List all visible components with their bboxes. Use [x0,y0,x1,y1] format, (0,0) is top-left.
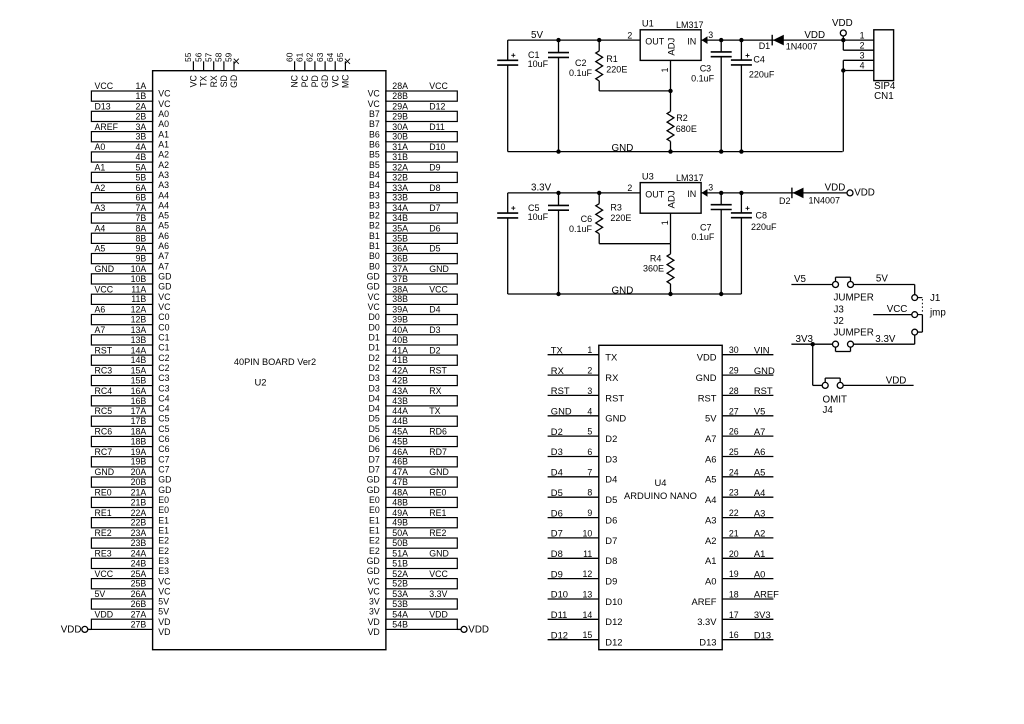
U2 left pin 9A A5 [95,244,170,261]
svg-text:1A: 1A [136,81,147,91]
svg-text:RE0: RE0 [429,488,446,498]
svg-text:2: 2 [627,30,632,40]
wire R1 bottom to ADJ [599,90,670,92]
svg-text:GD: GD [158,282,171,292]
svg-text:D13: D13 [95,102,111,112]
U4 pin 23 A4 [705,487,773,505]
svg-text:D5: D5 [369,424,380,434]
svg-text:VD: VD [368,617,380,627]
svg-text:0.1uF: 0.1uF [691,73,715,83]
CN1 pin 4 wire to GND [841,61,874,152]
svg-text:40A: 40A [392,325,408,335]
wire 3V3 net [791,343,832,345]
svg-text:VC: VC [368,89,381,99]
U2 left pin 21A RE0 [95,488,170,506]
svg-text:38B: 38B [392,294,408,304]
svg-text:C5: C5 [158,424,169,434]
svg-text:58: 58 [214,52,224,62]
svg-text:RD6: RD6 [429,427,447,437]
svg-text:D2: D2 [551,426,563,437]
svg-text:31B: 31B [392,152,408,162]
U4 pin 18 AREF [691,589,779,607]
svg-text:49B: 49B [392,518,408,528]
svg-text:41B: 41B [392,355,408,365]
svg-text:D6: D6 [429,223,440,233]
svg-text:14A: 14A [131,345,147,355]
svg-text:AREF: AREF [691,596,716,607]
svg-text:3: 3 [860,51,865,61]
svg-text:3.3V: 3.3V [697,616,717,627]
U2 right pin 40A D3 [369,325,441,343]
U4 pin 8 D5 [548,487,618,505]
U4 pin 7 D4 [548,467,618,485]
svg-text:AREF: AREF [95,122,119,132]
U2 right pin 53B box [369,599,457,617]
U2 left pin 24A RE3 [95,548,170,566]
svg-text:5V: 5V [95,589,106,599]
svg-text:D8: D8 [605,555,617,566]
svg-text:3: 3 [708,30,713,40]
svg-text:D7: D7 [605,535,617,546]
junction 3V3 node [811,342,815,346]
svg-text:15: 15 [583,630,593,640]
U4 pin 30 VIN [697,344,774,362]
svg-text:D13: D13 [699,637,716,648]
svg-text:A2: A2 [158,160,169,170]
svg-text:16A: 16A [131,386,147,396]
svg-text:C4: C4 [158,393,169,403]
U2 left pin 18A RC6 [95,427,170,445]
U2 left pin 11B box [91,294,171,312]
U4 pin 20 A1 [705,548,773,566]
svg-text:D12: D12 [605,637,622,648]
svg-text:GD: GD [367,282,380,292]
svg-text:D6: D6 [369,444,380,454]
svg-text:21A: 21A [131,488,147,498]
svg-text:A0: A0 [158,119,169,129]
svg-text:A4: A4 [158,190,169,200]
svg-text:17A: 17A [131,406,147,416]
svg-text:3A: 3A [136,122,147,132]
svg-text:OUT: OUT [645,189,665,199]
svg-text:E2: E2 [158,546,169,556]
svg-text:D4: D4 [369,404,380,414]
svg-text:C6: C6 [581,214,593,224]
svg-text:30A: 30A [392,122,408,132]
U2 left pin 23B box [91,538,169,556]
svg-text:D10: D10 [551,589,568,600]
svg-text:D2: D2 [429,345,440,355]
U2 right pin 41A D2 [369,345,441,363]
svg-text:C6: C6 [158,444,169,454]
svg-text:14B: 14B [131,355,147,365]
wire 3.3V rail [508,192,641,194]
U2 top pin 57 RX [203,52,218,87]
svg-text:17B: 17B [131,416,147,426]
svg-text:46A: 46A [392,447,408,457]
svg-text:D9: D9 [605,576,617,587]
U2 left pin 3B box [91,132,169,150]
U2 left pin 15A RC3 [95,366,170,384]
U4 pin 11 D8 [548,548,618,566]
svg-text:C0: C0 [158,322,169,332]
svg-text:RE2: RE2 [429,528,446,538]
svg-text:10: 10 [583,528,593,538]
svg-text:VC: VC [158,576,171,586]
svg-text:D1: D1 [369,343,380,353]
U4 pin 14 D11 [548,609,623,627]
svg-text:VCC: VCC [95,569,114,579]
svg-text:5V: 5V [705,413,717,424]
U2 top pin 60 NC [284,52,299,87]
U2 left pin 25A VCC [95,569,172,587]
svg-text:D12: D12 [551,629,568,640]
svg-text:19B: 19B [131,457,147,467]
svg-text:42A: 42A [392,366,408,376]
svg-text:60: 60 [284,52,294,62]
U2 right pin 32B box [369,172,457,190]
svg-text:ADJ: ADJ [667,37,678,55]
U2 right pin 36A D5 [369,244,441,261]
svg-text:37A: 37A [392,264,408,274]
svg-text:GD: GD [367,566,380,576]
svg-text:AREF: AREF [754,589,779,600]
svg-text:37B: 37B [392,274,408,284]
U2 left pin 15B box [91,375,169,393]
svg-text:A4: A4 [158,200,169,210]
connector CN1 SIP4 body [874,30,896,102]
svg-text:33A: 33A [392,183,408,193]
U2 left pin 26B box [91,599,169,617]
svg-text:GD: GD [367,556,380,566]
U4 pin 4 GND [548,405,627,423]
U2 right pin 54A VDD [368,609,448,627]
svg-text:CN1: CN1 [874,91,894,102]
U2 top pin 61 PC [295,52,310,87]
U2 top pin 63 GD [315,52,330,88]
svg-text:B2: B2 [369,221,380,231]
op-amp regulator U3 LM317 body [640,171,703,213]
svg-text:RC7: RC7 [95,447,113,457]
svg-text:VDD: VDD [95,609,114,619]
svg-text:29B: 29B [392,111,408,121]
svg-text:J4: J4 [823,405,834,416]
svg-text:U2: U2 [255,376,267,387]
svg-text:jmp: jmp [929,307,946,318]
svg-text:A4: A4 [754,487,765,498]
svg-text:VDD: VDD [832,18,853,29]
svg-text:D11: D11 [429,122,445,132]
svg-text:U3: U3 [642,171,654,181]
resistor R1 220E [596,38,628,91]
svg-text:47A: 47A [392,467,408,477]
svg-text:D7: D7 [429,203,440,213]
svg-text:D11: D11 [551,609,568,620]
U2 left pin 25B box [91,579,171,597]
U2 right pin 48B box [369,497,457,515]
svg-text:D8: D8 [551,548,563,559]
svg-text:64: 64 [325,52,335,62]
svg-text:GD: GD [229,75,239,88]
U2 right pin 52A VCC [368,569,449,587]
svg-text:26B: 26B [131,599,147,609]
U2 right pin 40B box [369,335,458,353]
svg-text:GND: GND [612,143,634,154]
svg-text:49A: 49A [392,508,408,518]
svg-text:A6: A6 [158,241,169,251]
svg-text:A4: A4 [705,494,716,505]
svg-text:28B: 28B [392,91,408,101]
svg-text:A2: A2 [95,183,106,193]
svg-text:25: 25 [729,447,739,457]
svg-text:GND: GND [754,365,775,376]
svg-text:53B: 53B [392,599,408,609]
svg-text:A3: A3 [754,507,765,518]
resistor R3 220E [596,191,632,244]
U2 left pin 13A A7 [95,325,170,343]
svg-text:VC: VC [330,75,340,88]
svg-text:3V: 3V [369,607,380,617]
svg-text:12B: 12B [131,315,147,325]
svg-text:7B: 7B [136,213,147,223]
svg-text:D10: D10 [429,142,445,152]
svg-text:10B: 10B [131,274,147,284]
svg-text:3.3V: 3.3V [531,183,552,194]
svg-text:R4: R4 [650,253,662,263]
U2 right pin 47B box [367,477,458,495]
svg-text:54B: 54B [392,619,408,629]
svg-text:10A: 10A [131,264,147,274]
svg-text:21: 21 [729,528,739,538]
svg-text:B7: B7 [369,109,380,119]
U2 right pin 46B box [369,457,458,475]
U2 right pin 38A VCC [368,284,449,302]
svg-text:D4: D4 [551,467,563,478]
svg-text:17: 17 [729,610,739,620]
svg-text:A2: A2 [754,528,765,539]
svg-text:20: 20 [729,549,739,559]
no-connect cross at pin 59 [234,59,239,64]
svg-text:56: 56 [193,52,203,62]
svg-text:E3: E3 [158,556,169,566]
U4 pin 21 A2 [705,528,773,546]
svg-text:A5: A5 [754,467,765,478]
U4 pin 13 D10 [548,589,623,607]
svg-text:50A: 50A [392,528,408,538]
U2 left pin 17B box [91,416,169,434]
svg-text:RC6: RC6 [95,427,113,437]
svg-text:14: 14 [583,610,593,620]
svg-text:RX: RX [551,365,565,376]
IC U4 ARDUINO NANO body [599,345,722,649]
svg-text:D9: D9 [429,162,440,172]
svg-text:57: 57 [203,52,213,62]
diode D2 1N4007 [779,188,840,206]
U4 pin 29 GND [696,365,775,383]
jumper header J1 [912,293,947,335]
U2 left pin 2A D13 [95,102,170,120]
svg-text:E1: E1 [369,525,380,535]
svg-text:24B: 24B [131,558,147,568]
svg-text:B1: B1 [369,241,380,251]
svg-text:11B: 11B [131,294,146,304]
U2 right pin 49B box [369,518,457,536]
svg-text:GD: GD [158,485,171,495]
svg-text:19: 19 [729,569,739,579]
svg-text:3: 3 [587,386,592,396]
svg-text:16: 16 [729,630,739,640]
junction ADJ node [668,89,672,93]
svg-text:54A: 54A [392,609,408,619]
svg-text:26A: 26A [131,589,147,599]
svg-text:RD7: RD7 [429,447,447,457]
svg-text:RC4: RC4 [95,386,113,396]
U2 left pin 12A A6 [95,305,170,323]
U2 right pin 42B box [369,375,458,393]
svg-text:GND: GND [429,264,449,274]
svg-text:C3: C3 [700,64,712,74]
svg-text:40B: 40B [392,335,408,345]
svg-text:5V: 5V [158,607,169,617]
svg-text:GND: GND [605,413,626,424]
svg-text:19A: 19A [131,447,147,457]
svg-text:A7: A7 [158,251,169,261]
svg-text:ADJ: ADJ [667,190,678,208]
svg-text:4B: 4B [136,152,147,162]
svg-text:62: 62 [305,52,315,62]
U2 left pin 27B box [91,619,170,637]
svg-text:44A: 44A [392,406,408,416]
svg-text:9B: 9B [136,254,147,264]
U4 pin 15 D12 [548,629,623,647]
svg-text:C2: C2 [158,363,169,373]
U2 left pin 6B box [91,193,169,211]
svg-text:RST: RST [605,392,624,403]
svg-text:36A: 36A [392,244,408,254]
svg-text:0.1uF: 0.1uF [569,224,593,234]
svg-text:D10: D10 [605,596,622,607]
svg-text:65: 65 [335,52,345,62]
wire 5V rail [508,39,641,41]
svg-text:D5: D5 [369,414,380,424]
CN1 pin 1 wire [843,30,874,40]
U2 left pin 22A RE1 [95,508,170,526]
svg-text:D4: D4 [369,393,380,403]
U2 right pin 39A D4 [369,305,441,323]
svg-text:1N4007: 1N4007 [786,41,818,51]
svg-text:C7: C7 [158,454,169,464]
U2 right pin 38B box [368,294,458,312]
svg-text:220uF: 220uF [751,222,777,232]
svg-text:GND: GND [551,405,572,416]
svg-text:VC: VC [368,576,381,586]
U2 left pin 2B box [91,111,169,129]
svg-text:VDD: VDD [886,375,907,386]
U2 left pin 26A 5V [95,589,170,607]
svg-text:24A: 24A [131,548,147,558]
svg-text:A3: A3 [158,180,169,190]
svg-text:3B: 3B [136,132,147,142]
svg-text:48A: 48A [392,488,408,498]
svg-text:8B: 8B [136,233,147,243]
svg-text:GD: GD [367,485,380,495]
svg-text:20B: 20B [131,477,147,487]
svg-text:13: 13 [583,589,593,599]
wire J1 pin3 to 3.3V net [854,335,915,344]
U2 right pin 52B box [368,579,458,597]
svg-text:U4: U4 [655,477,667,488]
svg-text:D7: D7 [551,528,563,539]
svg-text:RST: RST [698,392,717,403]
svg-text:J2: J2 [834,316,844,327]
svg-text:RX: RX [209,75,219,87]
svg-text:VD: VD [158,627,170,637]
svg-text:A4: A4 [95,223,106,233]
U1 IN pin arrowhead [702,36,708,44]
wire GND rail U1 [508,151,843,153]
U2 top pin 56 TX [193,52,208,87]
svg-text:B5: B5 [369,160,380,170]
svg-text:VD: VD [158,617,170,627]
U2 right pin 45B box [369,436,458,454]
wire U1 IN rail [701,39,843,41]
svg-text:RST: RST [551,385,570,396]
svg-text:A0: A0 [754,568,765,579]
svg-text:C1: C1 [158,332,169,342]
svg-text:RE2: RE2 [95,528,112,538]
wire VCC net to J1 pin2 [873,314,912,316]
svg-text:25A: 25A [131,569,147,579]
svg-text:21B: 21B [131,497,147,507]
svg-text:0.1uF: 0.1uF [569,68,593,78]
U4 pin 26 A7 [705,426,773,444]
U2 top pin 58 SD [214,52,229,87]
U4 pin 6 D3 [548,446,618,464]
svg-text:220E: 220E [610,213,631,223]
svg-text:4: 4 [860,61,865,71]
svg-text:22B: 22B [131,518,147,528]
svg-text:LM317: LM317 [676,20,704,30]
U2 right pin 33B box [369,193,457,211]
svg-text:A6: A6 [158,231,169,241]
svg-text:29: 29 [729,366,739,376]
svg-text:VDD: VDD [697,352,717,363]
svg-text:RC5: RC5 [95,406,113,416]
svg-text:GND: GND [429,548,449,558]
U2 right pin 47A GND [367,467,449,485]
svg-text:30: 30 [729,345,739,355]
svg-text:B1: B1 [369,231,380,241]
U2 right pin 39B box [369,315,458,333]
svg-text:6: 6 [587,447,592,457]
svg-text:5: 5 [587,427,592,437]
wire GND rail U3 [508,293,742,295]
svg-text:E3: E3 [158,566,169,576]
U4 pin 2 RX [548,365,619,383]
U2 left pin 3A AREF [95,122,170,140]
svg-text:VCC: VCC [429,284,448,294]
svg-text:RE0: RE0 [95,488,112,498]
U2 right pin 42A RST [369,366,448,384]
U4 pin 16 D13 [699,629,773,647]
svg-text:D6: D6 [369,434,380,444]
svg-text:51A: 51A [392,548,408,558]
U2 left pin 10B box [91,274,171,292]
svg-text:GD: GD [158,475,171,485]
svg-text:A6: A6 [705,453,716,464]
svg-text:A7: A7 [705,433,716,444]
svg-text:C3: C3 [158,373,169,383]
